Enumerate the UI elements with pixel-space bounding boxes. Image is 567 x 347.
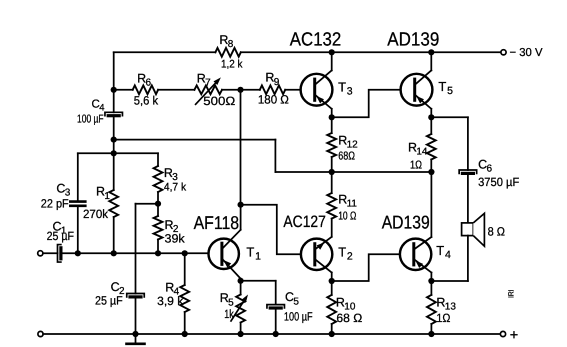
wire: feedback node down to 153 node bbox=[113, 140, 115, 154]
label R8 bbox=[219, 33, 233, 50]
svg-text:1Ω: 1Ω bbox=[410, 159, 422, 171]
svg-text:− 30 V: − 30 V bbox=[510, 47, 543, 59]
value R11 10 Ω bbox=[338, 211, 356, 223]
svg-text:AF118: AF118 bbox=[194, 212, 240, 233]
label T4 bbox=[436, 243, 451, 261]
T3 collector lead to top rail bbox=[315, 52, 332, 85]
wire: R4 branch upper bbox=[184, 253, 186, 285]
label R10 bbox=[336, 295, 356, 312]
junction: T1 collector node bbox=[238, 202, 244, 208]
junction: C3/R3/R1 node bbox=[111, 150, 117, 156]
ground: chassis stub below bottom rail bbox=[127, 334, 145, 344]
capacitor C3 bbox=[70, 202, 85, 206]
svg-text:12: 12 bbox=[347, 140, 359, 151]
svg-text:25 µF: 25 µF bbox=[95, 294, 123, 308]
value C5 100 µF bbox=[284, 310, 313, 324]
label R7 bbox=[197, 71, 211, 88]
junction: R4 top / input line bbox=[182, 250, 188, 256]
transistor T2 (AC127) bbox=[301, 239, 332, 270]
svg-text:10 Ω: 10 Ω bbox=[338, 211, 356, 223]
value R10 68 Ω bbox=[336, 311, 362, 325]
junction: R14/T4-collector node bbox=[428, 169, 434, 175]
svg-text:T: T bbox=[436, 243, 444, 258]
wire: T3 emitter to T5 base (dogleg) bbox=[332, 90, 401, 118]
junction: T5 emitter node bbox=[428, 114, 434, 120]
capacitor C6 bbox=[459, 170, 477, 174]
junction: T5 collector / top rail bbox=[428, 49, 434, 55]
svg-text:68 Ω: 68 Ω bbox=[336, 311, 362, 325]
transistor T1 (AF118) bbox=[209, 239, 239, 269]
junction: C2 / bottom rail bbox=[132, 331, 138, 337]
wire: -30V top rail right segment bbox=[241, 51, 501, 53]
svg-text:68Ω: 68Ω bbox=[338, 150, 355, 162]
wire: mid rail y=172 right segment bbox=[332, 171, 432, 173]
wire: C3 branch lower bbox=[77, 206, 79, 254]
svg-text:25 µF: 25 µF bbox=[47, 229, 74, 243]
svg-text:1k: 1k bbox=[224, 307, 234, 321]
svg-text:4: 4 bbox=[99, 103, 104, 114]
wire: R4 to bottom rail bbox=[184, 312, 186, 334]
resistor R11 bbox=[327, 172, 336, 219]
T5 collector lead to top rail bbox=[415, 52, 432, 85]
svg-text:3: 3 bbox=[347, 86, 353, 98]
svg-text:5: 5 bbox=[293, 296, 299, 307]
value R14 1Ω bbox=[410, 159, 422, 171]
value R2 39k bbox=[165, 231, 186, 245]
wire: speaker down to T4 emitter line bbox=[431, 236, 468, 281]
wire: C3 branch upper bbox=[77, 153, 79, 201]
wire: -30V top rail left segment bbox=[114, 51, 216, 53]
speaker (8 Ω) bbox=[462, 213, 485, 246]
value R12 68Ω bbox=[338, 150, 355, 162]
label R6 bbox=[137, 71, 151, 88]
junction: T1 emitter node bbox=[238, 278, 244, 284]
T1 collector lead bbox=[222, 205, 241, 249]
wire: R1 to input line bbox=[113, 217, 115, 253]
label -30V bbox=[510, 47, 543, 59]
label R14 bbox=[408, 141, 428, 158]
T4 collector lead up to output node bbox=[414, 172, 432, 250]
junction: R12/R11 node bbox=[329, 169, 335, 175]
svg-text:7: 7 bbox=[205, 78, 211, 89]
value R9 180 Ω bbox=[258, 92, 289, 106]
T5 emitter lead with PNP arrow bbox=[415, 95, 432, 118]
label R11 bbox=[338, 192, 357, 209]
label R3 bbox=[164, 166, 178, 183]
value R6 5,6k bbox=[134, 93, 159, 107]
svg-text:1,2 k: 1,2 k bbox=[221, 58, 243, 70]
svg-text:8: 8 bbox=[228, 39, 234, 50]
wire: left branch from top rail to R6 node bbox=[113, 52, 115, 90]
value R8 1,2 k bbox=[221, 58, 243, 70]
svg-text:AD139: AD139 bbox=[387, 30, 439, 51]
label C6 bbox=[478, 157, 492, 174]
svg-text:3750 µF: 3750 µF bbox=[478, 175, 519, 189]
potentiometer R5 (variable) bbox=[231, 295, 248, 323]
wire: R7 to junction bbox=[222, 89, 241, 91]
svg-text:6: 6 bbox=[145, 78, 151, 89]
svg-text:AC132: AC132 bbox=[290, 30, 342, 51]
svg-text:6: 6 bbox=[486, 164, 492, 175]
capacitor C5 bbox=[267, 305, 285, 309]
svg-text:T: T bbox=[338, 80, 346, 95]
label R1 bbox=[96, 185, 110, 202]
svg-text:2: 2 bbox=[347, 251, 353, 263]
resistor R14 bbox=[427, 117, 436, 172]
transistor T3 (AC132) bbox=[301, 74, 333, 106]
junction: T3 emitter node bbox=[329, 114, 335, 120]
svg-text:4,7 k: 4,7 k bbox=[164, 181, 187, 193]
label AD139 (T4 type) bbox=[382, 211, 430, 232]
wire: input terminal to C1 bbox=[43, 252, 58, 254]
resistor R10 bbox=[327, 281, 336, 324]
wire: R3 to R2/R3 junction bbox=[157, 192, 159, 204]
svg-text:4: 4 bbox=[445, 249, 451, 261]
svg-text:T: T bbox=[246, 245, 254, 260]
terminal: + supply bbox=[500, 331, 505, 336]
label R13 bbox=[436, 295, 456, 312]
svg-text:5: 5 bbox=[447, 85, 453, 97]
resistor R9 bbox=[241, 85, 286, 94]
junction: C5 / bottom rail bbox=[273, 331, 279, 337]
svg-text:5,6 k: 5,6 k bbox=[134, 93, 159, 107]
svg-text:AD139: AD139 bbox=[382, 211, 430, 232]
wire: R5 to bottom rail bbox=[240, 323, 242, 335]
wire: node line C3-top to R3-top bbox=[78, 152, 158, 154]
wire: R6 node to R6 bbox=[114, 89, 133, 91]
junction: T3 collector / top rail bbox=[329, 49, 335, 55]
capacitor C2 bbox=[127, 294, 145, 298]
svg-text:AC127: AC127 bbox=[283, 213, 326, 231]
label C4 bbox=[92, 99, 105, 114]
junction: R5 / bottom rail bbox=[238, 331, 244, 337]
wire: R9 to T3 base bbox=[285, 89, 301, 91]
value R5 1k bbox=[224, 307, 234, 321]
value C1 25µF bbox=[47, 229, 74, 243]
svg-text:3,9 k: 3,9 k bbox=[157, 294, 184, 308]
wire: input line C1 to T1 base bbox=[62, 252, 209, 254]
svg-text:11: 11 bbox=[347, 199, 358, 210]
wire: bottom rail bbox=[43, 333, 500, 335]
wire: C2 to bottom rail bbox=[135, 297, 137, 334]
resistor R2 bbox=[154, 216, 163, 240]
junction: R2/R3/C2 node bbox=[155, 201, 161, 207]
transistor T5 (AD139) bbox=[401, 74, 433, 106]
svg-text:1Ω: 1Ω bbox=[436, 311, 450, 325]
junction: R4 / bottom rail bbox=[182, 331, 188, 337]
label T3 bbox=[338, 80, 353, 98]
svg-text:+: + bbox=[510, 327, 518, 343]
T2 upper lead (emitter, NPN arrow out) to R11 bbox=[315, 219, 332, 250]
junction: R13 / bottom rail bbox=[428, 331, 434, 337]
value R1 270k bbox=[83, 207, 109, 221]
svg-text:270k: 270k bbox=[83, 207, 109, 221]
junction: feedback line node bbox=[111, 137, 117, 143]
junction: C3 bottom / input line bbox=[75, 250, 81, 256]
wire: C2 branch down (crosses input line) bbox=[135, 204, 137, 294]
svg-text:180 Ω: 180 Ω bbox=[258, 92, 289, 106]
label T5 bbox=[438, 79, 453, 97]
value C4 100µF bbox=[77, 114, 104, 126]
label R12 bbox=[338, 133, 358, 150]
wire: T1 emitter node right to C5 branch bbox=[241, 281, 276, 305]
label AC127 (T2 type) bbox=[283, 213, 326, 231]
label T2 bbox=[338, 245, 353, 263]
wire: R13 to bottom rail bbox=[430, 324, 432, 334]
resistor R4 bbox=[180, 285, 189, 312]
terminal: input bbox=[38, 251, 43, 256]
svg-text:100 µF: 100 µF bbox=[284, 310, 313, 324]
wire: T1 emitter node down to R5 bbox=[240, 281, 242, 295]
label C2 bbox=[111, 280, 125, 297]
label AD139 (T5 type) bbox=[387, 30, 439, 51]
label + bbox=[510, 327, 518, 343]
transistor T4 (AD139) bbox=[400, 239, 431, 270]
label R9 bbox=[265, 71, 279, 88]
wire: C5 to bottom rail bbox=[275, 309, 277, 335]
svg-text:22 pF: 22 pF bbox=[41, 196, 69, 210]
resistor R6 bbox=[133, 85, 158, 94]
wire: C6 to speaker bbox=[467, 174, 469, 223]
resistor R13 bbox=[427, 281, 436, 324]
wire: feedback line corner down bbox=[274, 140, 276, 172]
svg-text:IRI: IRI bbox=[507, 290, 516, 299]
wire: 153 line corner down to R3 bbox=[157, 153, 159, 166]
wire: R7/R9 node down to T1 collector node bbox=[240, 90, 242, 205]
wire: C4 to feedback node bbox=[113, 116, 115, 139]
label T1 bbox=[246, 245, 261, 263]
label R2 bbox=[165, 218, 179, 235]
wire: R2 to input line bbox=[157, 240, 159, 254]
value R13 1Ω bbox=[436, 311, 450, 325]
svg-text:14: 14 bbox=[416, 147, 428, 158]
wire: T1 collector node to T2 base (dogleg) bbox=[241, 205, 301, 255]
wire: feedback line from C4 node to right bbox=[114, 139, 276, 141]
svg-text:T: T bbox=[438, 79, 446, 94]
resistor R8 bbox=[215, 48, 240, 57]
junction: T4 emitter node bbox=[428, 278, 434, 284]
publisher mark IRI (rotated) bbox=[507, 290, 516, 299]
svg-text:500Ω: 500Ω bbox=[203, 94, 235, 108]
label C3 bbox=[56, 182, 70, 199]
label AC132 (T3 type) bbox=[290, 30, 342, 51]
terminal: -30V supply bbox=[501, 50, 506, 55]
wire: junction down to R2 bbox=[157, 204, 159, 216]
value C6 3750 µF bbox=[478, 175, 519, 189]
svg-text:8 Ω: 8 Ω bbox=[488, 225, 505, 239]
resistor R3 bbox=[154, 166, 163, 192]
value R4 3,9k bbox=[157, 294, 184, 308]
wire: T2 node to T4 base (dogleg) bbox=[332, 254, 400, 281]
terminal: bottom-left (input ground) bbox=[38, 331, 43, 336]
wire: mid rail y=172 left segment bbox=[275, 171, 331, 173]
wire: R6 to R7 bbox=[158, 89, 194, 91]
T4 emitter lead with PNP arrow bbox=[414, 259, 432, 281]
label speaker 8 Ω bbox=[488, 225, 505, 239]
junction: R7/R9 node bbox=[237, 87, 243, 93]
T1 emitter lead with PNP arrow bbox=[222, 259, 241, 281]
svg-text:1: 1 bbox=[255, 251, 261, 263]
svg-text:9: 9 bbox=[274, 77, 280, 88]
svg-text:39k: 39k bbox=[165, 231, 186, 245]
svg-text:T: T bbox=[338, 245, 346, 260]
value C2 25 µF bbox=[95, 294, 123, 308]
svg-text:1: 1 bbox=[104, 191, 110, 202]
value C3 22 pF bbox=[41, 196, 69, 210]
value R3 4,7 k bbox=[164, 181, 187, 193]
value R7 500Ω bbox=[203, 94, 235, 108]
wire: T5 emitter right to C6 branch bbox=[431, 117, 468, 170]
junction: R10 / bottom rail bbox=[329, 331, 335, 337]
junction: T2 lower node bbox=[329, 278, 335, 284]
T2 lower lead (collector) bbox=[315, 259, 332, 281]
label C1 bbox=[53, 220, 67, 237]
wire: R6 node down to C4 bbox=[113, 90, 115, 113]
junction: R6 / C4 node bbox=[111, 87, 117, 93]
resistor R1 bbox=[109, 190, 118, 217]
potentiometer R7 (variable) bbox=[194, 77, 222, 104]
wire: R2/R3 node left to C2 branch bbox=[136, 203, 159, 205]
label R5 bbox=[220, 291, 234, 308]
wire: R10 to bottom rail bbox=[331, 324, 333, 334]
T3 emitter lead with PNP arrow bbox=[315, 95, 332, 118]
capacitor C4 bbox=[105, 112, 123, 116]
label R4 bbox=[165, 280, 179, 297]
junction: R2 bottom / input line bbox=[155, 250, 161, 256]
svg-text:100 µF: 100 µF bbox=[77, 114, 104, 126]
label AF118 (T1 type) bbox=[194, 212, 240, 233]
wire: 153 node down to R1 bbox=[113, 153, 115, 190]
junction: R1 bottom / input line bbox=[111, 250, 117, 256]
resistor R12 bbox=[327, 117, 336, 172]
label C5 bbox=[285, 290, 299, 307]
capacitor C1 bbox=[58, 245, 62, 262]
